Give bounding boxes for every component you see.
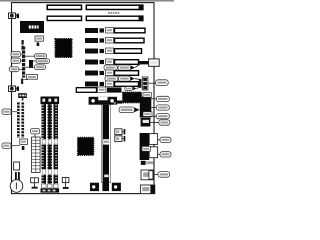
label box below strip cluster (27, 75, 38, 80)
parallel/serial stack box B (141, 118, 159, 127)
connector C (right edge, below box B) (141, 170, 158, 180)
serial port box A (right edge) (140, 93, 157, 118)
pill right A3 (156, 114, 169, 119)
IDE bottom label (20, 139, 28, 150)
USB connector stack (right edge) (139, 77, 156, 90)
jumper JP (bottom left) (31, 178, 39, 189)
keyboard connector (right edge) (139, 59, 159, 66)
fan connector J1 (top left edge) (9, 13, 20, 19)
pill right A2 (156, 105, 169, 110)
pill label P7a (105, 76, 118, 81)
pill label C (158, 172, 170, 178)
pill label left 3 (9, 67, 22, 72)
panel header pill label (31, 129, 40, 138)
battery holder box (14, 162, 20, 170)
pill label left 1 (11, 52, 23, 57)
CPU slot bottom retention bar (90, 183, 121, 191)
battery prongs (15, 172, 17, 180)
pill label right 1 (25, 54, 46, 59)
pill label left 2 (11, 58, 23, 63)
board outline (12, 3, 155, 194)
jumper JB (115, 136, 125, 142)
small black component right of strip (29, 60, 33, 68)
PCI slot 4 row (85, 81, 139, 87)
memory slot row 1 left (DIMM1) (47, 5, 81, 9)
pill callout USB2 with arrow (125, 87, 140, 91)
pill right B2 (160, 137, 171, 142)
CPU slot top retention bar (89, 97, 123, 105)
IDE connector strip 2 (vertical ladder) (21, 102, 24, 138)
ISA slot 2 row (85, 38, 144, 44)
callout pill left of box A with arrow (119, 107, 140, 113)
edge pill label 2 (2, 143, 20, 148)
tiny element above fan2 (21, 79, 28, 85)
pill label right 3 (25, 65, 45, 70)
power connector label (black box) (20, 21, 44, 33)
memory slot row 1 right (86, 5, 143, 9)
PCI slot 1 row (85, 48, 142, 54)
PCI slot 2 row (85, 59, 139, 65)
pill label P6a (104, 65, 117, 70)
pill right A1 (156, 96, 169, 101)
DIMM socket column 2 (48, 104, 53, 188)
AGP slot row (76, 87, 121, 93)
dark label box (IDE label) (18, 93, 27, 100)
tiny gray text between rows (108, 12, 119, 14)
memory slot row 2 right (86, 16, 143, 20)
DIMM socket column 3 (54, 104, 59, 188)
memory slot row 2 left (DIMM2) (47, 16, 81, 20)
pill label right 2 (33, 59, 50, 63)
edge pill label 1 (2, 109, 17, 114)
CPU slot body (Slot 1) (101, 105, 110, 183)
small vertical header (22, 40, 24, 50)
DIMM footer label bar (41, 188, 60, 192)
DIMM socket column 1 (42, 104, 47, 188)
PCI slot 3 row (85, 70, 139, 76)
tiny mark (114, 102, 116, 105)
USB pill label (156, 80, 169, 86)
IDE connector strip 1 (vertical ladder) (17, 102, 20, 138)
chipset chip U2 (south bridge) (78, 138, 94, 156)
jumper label JP? (below power box) (35, 36, 43, 46)
pill label P7b with arrow to USB connector (119, 76, 141, 81)
chipset chip U3 (super I/O BGA) (123, 92, 142, 102)
top scan edge line (0, 0, 174, 2)
pill label P6b with arrow to keyboard connector (118, 64, 140, 70)
ISA slot 1 row (85, 28, 145, 34)
front panel header strip (vertical) (22, 47, 25, 78)
jumper JA (right of CPU slot) (115, 129, 125, 135)
PS/2 connector block (bottom right) (140, 185, 154, 194)
jumper JP (bottom center) (62, 177, 69, 189)
pill right B3 (160, 152, 171, 157)
DIMM header label (black) (41, 97, 60, 105)
fan connector 2 (left edge) (9, 86, 20, 92)
chipset chip U1 (north bridge) (55, 39, 72, 58)
panel pin-header grid (32, 137, 41, 173)
battery (10, 180, 23, 193)
pill right B1 (159, 120, 170, 125)
